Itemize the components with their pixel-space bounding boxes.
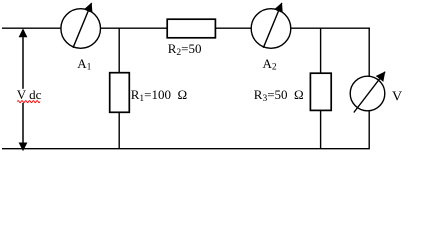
svg-text:R3=50 Ω: R3=50 Ω [254,87,304,104]
svg-text:R1=100 Ω: R1=100 Ω [131,87,187,104]
svg-text:A2: A2 [263,56,277,73]
svg-text:A1: A1 [77,56,91,73]
svg-text:V: V [392,89,402,104]
svg-text:R2=50: R2=50 [168,41,202,58]
svg-text:V dc: V dc [17,87,42,102]
